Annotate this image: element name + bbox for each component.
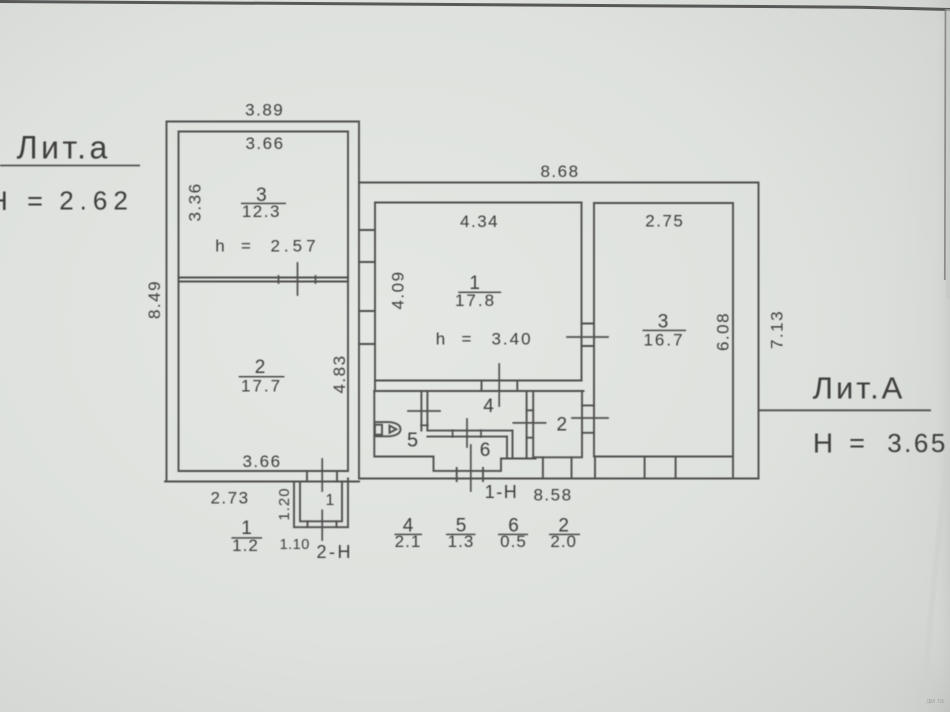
svg-text:Н: Н [813,428,833,459]
svg-text:4.83: 4.83 [330,354,349,393]
svg-text:2.62: 2.62 [59,186,134,216]
svg-text:=: = [241,237,251,256]
svg-text:2: 2 [557,415,568,436]
svg-text:5: 5 [407,430,418,452]
svg-text:Лит.а: Лит.а [17,130,111,166]
svg-text:6.08: 6.08 [714,312,733,351]
svg-text:1.2: 1.2 [232,536,259,555]
svg-text:2: 2 [255,357,266,378]
svg-text:1.20: 1.20 [276,487,293,520]
svg-text:12.3: 12.3 [242,202,281,221]
svg-text:3: 3 [658,311,669,332]
svg-text:3.36: 3.36 [186,182,205,221]
svg-text:=: = [462,330,472,349]
svg-text:2.73: 2.73 [210,489,249,508]
svg-text:Н: Н [0,186,8,216]
svg-text:=: = [849,428,865,458]
svg-text:=: = [27,186,43,216]
svg-text:17.7: 17.7 [241,377,282,396]
svg-text:2.75: 2.75 [645,212,684,231]
svg-text:2-Н: 2-Н [316,542,353,562]
svg-text:Лит.А: Лит.А [813,371,906,406]
svg-text:4.34: 4.34 [460,212,499,231]
svg-text:3.66: 3.66 [242,452,281,471]
svg-text:17.8: 17.8 [455,291,496,310]
svg-text:4: 4 [483,396,494,417]
svg-text:7.13: 7.13 [768,310,787,349]
svg-text:h: h [436,330,445,349]
svg-text:8.58: 8.58 [533,486,572,505]
svg-text:16.7: 16.7 [643,331,684,350]
svg-text:4.09: 4.09 [388,270,407,309]
svg-text:1: 1 [326,492,335,509]
svg-text:1-Н: 1-Н [485,482,519,502]
svg-text:8.49: 8.49 [145,280,164,319]
svg-text:8.68: 8.68 [540,162,579,181]
svg-text:2.57: 2.57 [270,237,319,256]
svg-text:3.66: 3.66 [245,134,284,153]
svg-text:6: 6 [480,440,491,461]
svg-text:дм та: дм та [926,698,944,705]
svg-text:3.89: 3.89 [245,101,284,120]
svg-text:1.10: 1.10 [280,537,310,553]
svg-text:3.65: 3.65 [887,428,948,458]
svg-text:3.40: 3.40 [491,330,532,349]
svg-text:h: h [215,237,224,256]
